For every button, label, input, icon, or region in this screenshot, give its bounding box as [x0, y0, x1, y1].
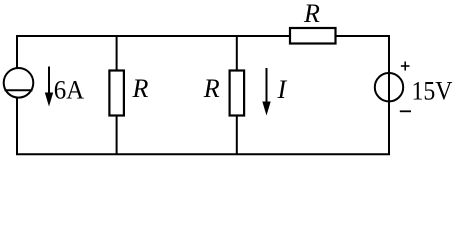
resistor R (middle vertical) — [230, 71, 245, 116]
svg-text:R: R — [132, 74, 149, 103]
wire: left vertical upper — [16, 35, 18, 69]
current source 6A (circle with horizontal bar) — [4, 68, 34, 98]
svg-text:15V: 15V — [412, 76, 453, 105]
svg-text:R: R — [303, 0, 320, 28]
wire: branch 2 upper — [236, 35, 238, 71]
svg-text:6A: 6A — [54, 75, 85, 104]
arrow: branch current I (downward) — [262, 68, 270, 116]
wire: right vertical through voltage source — [388, 35, 390, 155]
arrow: 6A current direction (downward) — [45, 67, 53, 107]
wire: branch 2 lower — [236, 115, 238, 155]
wire: top horizontal left section — [16, 35, 290, 37]
svg-text:R: R — [203, 74, 220, 103]
svg-text:I: I — [277, 75, 288, 104]
wire: branch 1 lower — [116, 115, 118, 155]
wire: left vertical lower — [16, 97, 18, 155]
resistor R (top, horizontal) — [290, 28, 336, 44]
wire: branch 1 upper — [116, 35, 118, 71]
voltage source 15V (circle) — [375, 73, 403, 101]
wire: bottom horizontal — [16, 153, 390, 155]
resistor R (left vertical) — [109, 71, 124, 116]
minus polarity mark — [400, 110, 411, 112]
plus polarity mark — [401, 62, 410, 71]
wire: top horizontal right section — [335, 35, 390, 37]
